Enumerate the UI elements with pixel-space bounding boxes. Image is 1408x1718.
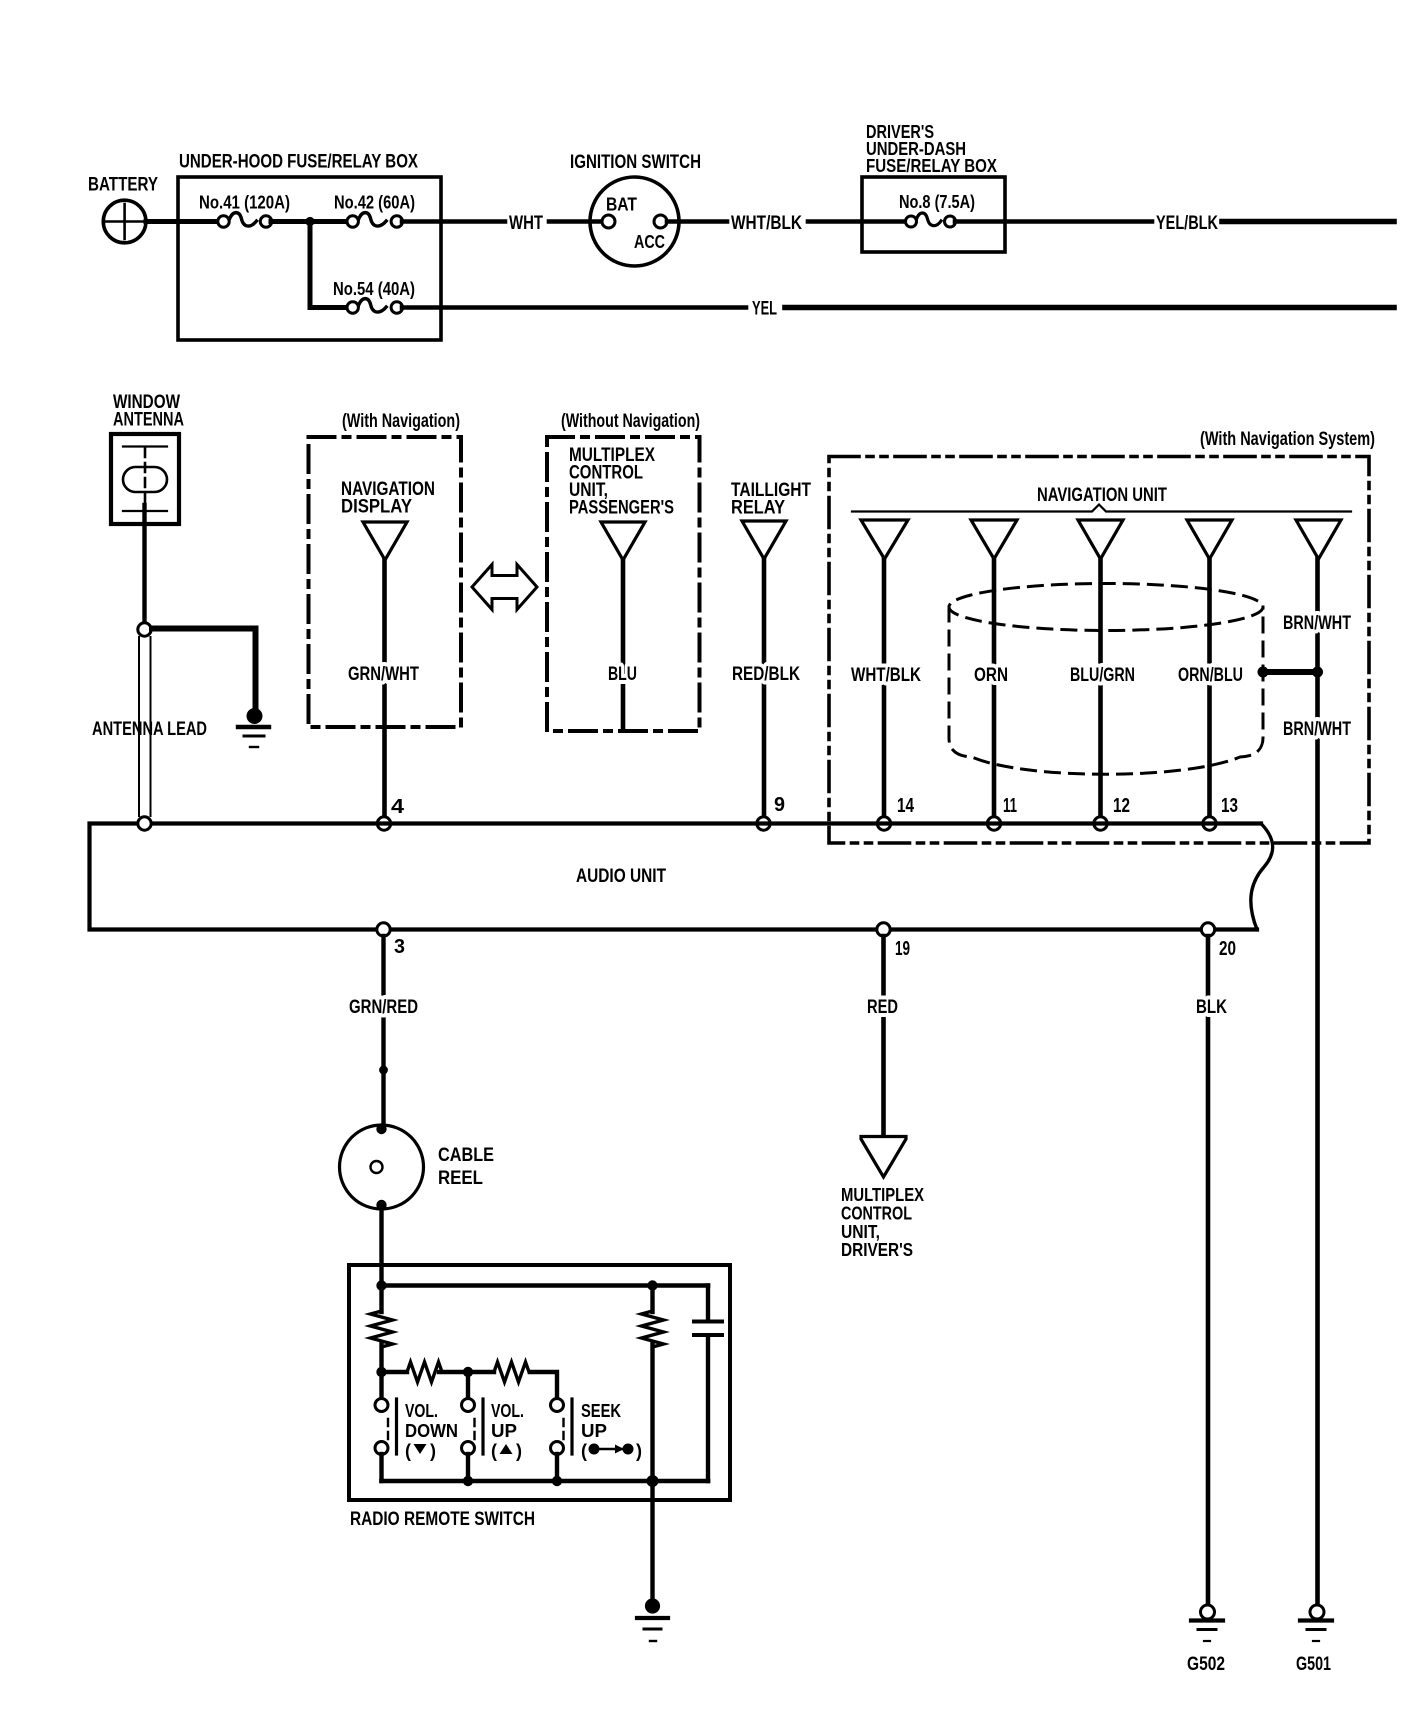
wire fuse41 to junction [271, 219, 347, 224]
top bus wire [382, 1283, 709, 1288]
cable reel [340, 1125, 424, 1209]
resistor R2 (vol down) [382, 1370, 408, 1374]
svg-text:No.41 (120A): No.41 (120A) [199, 193, 290, 213]
splice node [379, 1066, 388, 1075]
svg-text:): ) [636, 1441, 642, 1461]
svg-text:AUDIO UNIT: AUDIO UNIT [576, 866, 666, 887]
switch SW1 vol down [375, 1399, 388, 1412]
wire GRN/WHT [382, 560, 387, 817]
svg-text:): ) [516, 1441, 522, 1461]
node antenna lead to audio unit [138, 817, 151, 830]
svg-text:(With Navigation System): (With Navigation System) [1200, 429, 1375, 450]
node antenna junction [138, 623, 151, 636]
svg-text:UP: UP [581, 1421, 607, 1441]
svg-text:BAT: BAT [606, 195, 637, 215]
svg-text:(: ( [405, 1441, 411, 1461]
connector pin 14 [861, 520, 908, 559]
svg-text:BLU/GRN: BLU/GRN [1070, 665, 1135, 686]
svg-text:FUSE/RELAY BOX: FUSE/RELAY BOX [866, 156, 997, 176]
svg-text:REEL: REEL [438, 1168, 483, 1189]
svg-text:ORN: ORN [974, 665, 1008, 686]
svg-text:VOL.: VOL. [491, 1401, 524, 1421]
wire junction down to fuse54 [310, 222, 347, 308]
svg-text:WHT/BLK: WHT/BLK [731, 213, 802, 234]
connector (multiplex driver) [861, 1137, 906, 1178]
svg-text:BLK: BLK [1196, 997, 1227, 1018]
svg-text:CABLE: CABLE [438, 1145, 494, 1166]
svg-text:UNDER-HOOD FUSE/RELAY BOX: UNDER-HOOD FUSE/RELAY BOX [179, 152, 418, 173]
svg-text:DOWN: DOWN [405, 1421, 458, 1441]
svg-text:(: ( [491, 1441, 497, 1461]
pin 20 [1201, 923, 1214, 936]
svg-text:G501: G501 [1296, 1654, 1331, 1675]
ground (antenna) [247, 708, 263, 724]
wire antenna to junction [142, 505, 146, 622]
wire BLK [1206, 936, 1211, 1605]
junction node [305, 217, 314, 226]
pin 12 [1094, 817, 1107, 830]
audio unit box [90, 824, 1262, 930]
svg-text:BATTERY: BATTERY [88, 175, 158, 196]
navigation unit bracket [852, 505, 1351, 512]
resistor R4 (right) [650, 1286, 654, 1313]
svg-text:(: ( [581, 1441, 587, 1461]
wire BLU [621, 560, 626, 729]
pin 4 [377, 817, 390, 830]
resistor R3 (vol up) [494, 1362, 529, 1382]
pin 13 [1203, 817, 1216, 830]
svg-text:WHT/BLK: WHT/BLK [851, 665, 921, 686]
wire ACC to WHT/BLK [667, 219, 727, 224]
wire WHT to ignition switch [549, 219, 603, 224]
svg-text:SEEK: SEEK [581, 1401, 621, 1421]
svg-text:BLU: BLU [608, 664, 637, 685]
terminal BAT [602, 215, 615, 228]
svg-text:BRN/WHT: BRN/WHT [1283, 613, 1351, 634]
svg-text:No.42 (60A): No.42 (60A) [334, 193, 415, 213]
svg-text:RELAY: RELAY [731, 498, 785, 519]
svg-text:WHT: WHT [509, 213, 543, 234]
svg-text:RADIO REMOTE SWITCH: RADIO REMOTE SWITCH [350, 1509, 535, 1530]
svg-text:No.54 (40A): No.54 (40A) [333, 279, 415, 299]
pin 3 [377, 923, 390, 936]
svg-text:No.8 (7.5A): No.8 (7.5A) [899, 192, 975, 212]
wire GRN/RED [381, 936, 385, 1125]
svg-text:ORN/BLU: ORN/BLU [1178, 665, 1243, 686]
svg-text:(Without Navigation): (Without Navigation) [561, 411, 700, 432]
wire RED [881, 936, 886, 1134]
wire RED/BLK [762, 559, 767, 817]
pin 19 [877, 923, 890, 936]
svg-text:DISPLAY: DISPLAY [341, 497, 412, 518]
wire YEL/BLK to right edge [1222, 219, 1394, 225]
pin 11 [987, 817, 1000, 830]
svg-text:RED: RED [867, 997, 898, 1018]
svg-text:): ) [430, 1441, 436, 1461]
svg-text:NAVIGATION UNIT: NAVIGATION UNIT [1037, 485, 1167, 506]
connector (taillight relay) [742, 521, 786, 559]
switch SW3 seek up [551, 1399, 564, 1412]
connector pin 12 [1078, 520, 1123, 559]
dashed shield drum [949, 584, 1263, 631]
wire fuse54 to YEL [402, 305, 746, 310]
wire fuse8 to YEL/BLK [955, 219, 1152, 224]
svg-text:UNIT,: UNIT, [841, 1222, 880, 1242]
ground G501 [1310, 1605, 1324, 1619]
svg-text:ANTENNA LEAD: ANTENNA LEAD [92, 719, 207, 740]
wire BLU/GRN (12) [1098, 559, 1103, 817]
wire fuse42 to WHT [402, 219, 505, 224]
bottom bus wire [382, 1479, 709, 1484]
connector (multiplex passenger) [601, 522, 645, 560]
ground G502 [1201, 1605, 1215, 1619]
wire junction to ground [152, 629, 256, 712]
resistor R1 (left) [379, 1286, 383, 1313]
svg-text:PASSENGER'S: PASSENGER'S [569, 498, 674, 519]
svg-text:14: 14 [897, 795, 915, 817]
svg-text:CONTROL: CONTROL [841, 1204, 912, 1224]
connector pin 13 [1187, 520, 1232, 559]
pin 14 [877, 817, 890, 830]
svg-text:MULTIPLEX: MULTIPLEX [841, 1185, 924, 1205]
svg-text:YEL/BLK: YEL/BLK [1156, 213, 1218, 234]
svg-text:G502: G502 [1187, 1654, 1225, 1675]
wire ORN/BLU (13) [1207, 559, 1212, 817]
switch SW2 vol up [462, 1399, 475, 1412]
wire battery to fuse box [146, 219, 219, 224]
terminal ACC [654, 215, 667, 228]
svg-text:GRN/RED: GRN/RED [349, 997, 418, 1018]
svg-text:(With Navigation): (With Navigation) [342, 411, 460, 432]
audio unit torn edge [1251, 824, 1273, 930]
pin 9 [757, 817, 770, 830]
svg-text:BRN/WHT: BRN/WHT [1283, 719, 1351, 740]
wire ORN (11) [992, 559, 997, 817]
radio remote switch box [349, 1265, 730, 1500]
switch bottom stubs [379, 1454, 383, 1481]
node [376, 1367, 386, 1377]
svg-text:RED/BLK: RED/BLK [732, 664, 800, 685]
svg-text:11: 11 [1003, 795, 1017, 817]
under-hood fuse/relay box [178, 177, 441, 340]
svg-text:UP: UP [491, 1421, 517, 1441]
wire WHT/BLK (14) [882, 559, 887, 817]
connector BRN/WHT [1296, 520, 1341, 559]
svg-text:13: 13 [1221, 795, 1238, 817]
svg-text:GRN/WHT: GRN/WHT [348, 664, 419, 685]
svg-text:ACC: ACC [634, 232, 665, 252]
wire YEL to right edge [785, 305, 1394, 311]
wire cable reel to remote switch [379, 1207, 383, 1285]
wire remote switch to ground [650, 1481, 654, 1602]
connector (navigation display) [363, 522, 407, 560]
double arrow (either/or) [472, 565, 537, 610]
svg-text:12: 12 [1113, 795, 1130, 817]
connector pin 11 [971, 520, 1017, 559]
svg-text:4: 4 [391, 796, 405, 818]
capacitor C1 [706, 1286, 710, 1321]
svg-text:9: 9 [774, 794, 785, 816]
ground (remote switch) [645, 1598, 660, 1613]
svg-text:IGNITION SWITCH: IGNITION SWITCH [570, 152, 701, 173]
wire WHT/BLK to under-dash box [808, 219, 905, 224]
wire BRN/WHT to G501 [1315, 559, 1320, 1605]
svg-text:YEL: YEL [752, 299, 777, 320]
battery B1 [103, 200, 146, 243]
svg-text:ANTENNA: ANTENNA [113, 410, 184, 431]
antenna lead shielded wire [138, 637, 140, 816]
svg-text:20: 20 [1219, 938, 1236, 960]
svg-text:DRIVER'S: DRIVER'S [841, 1240, 913, 1260]
svg-text:VOL.: VOL. [405, 1401, 438, 1421]
svg-text:3: 3 [394, 936, 405, 958]
wire shield to BRN/WHT [1263, 669, 1318, 675]
svg-text:19: 19 [895, 938, 910, 960]
